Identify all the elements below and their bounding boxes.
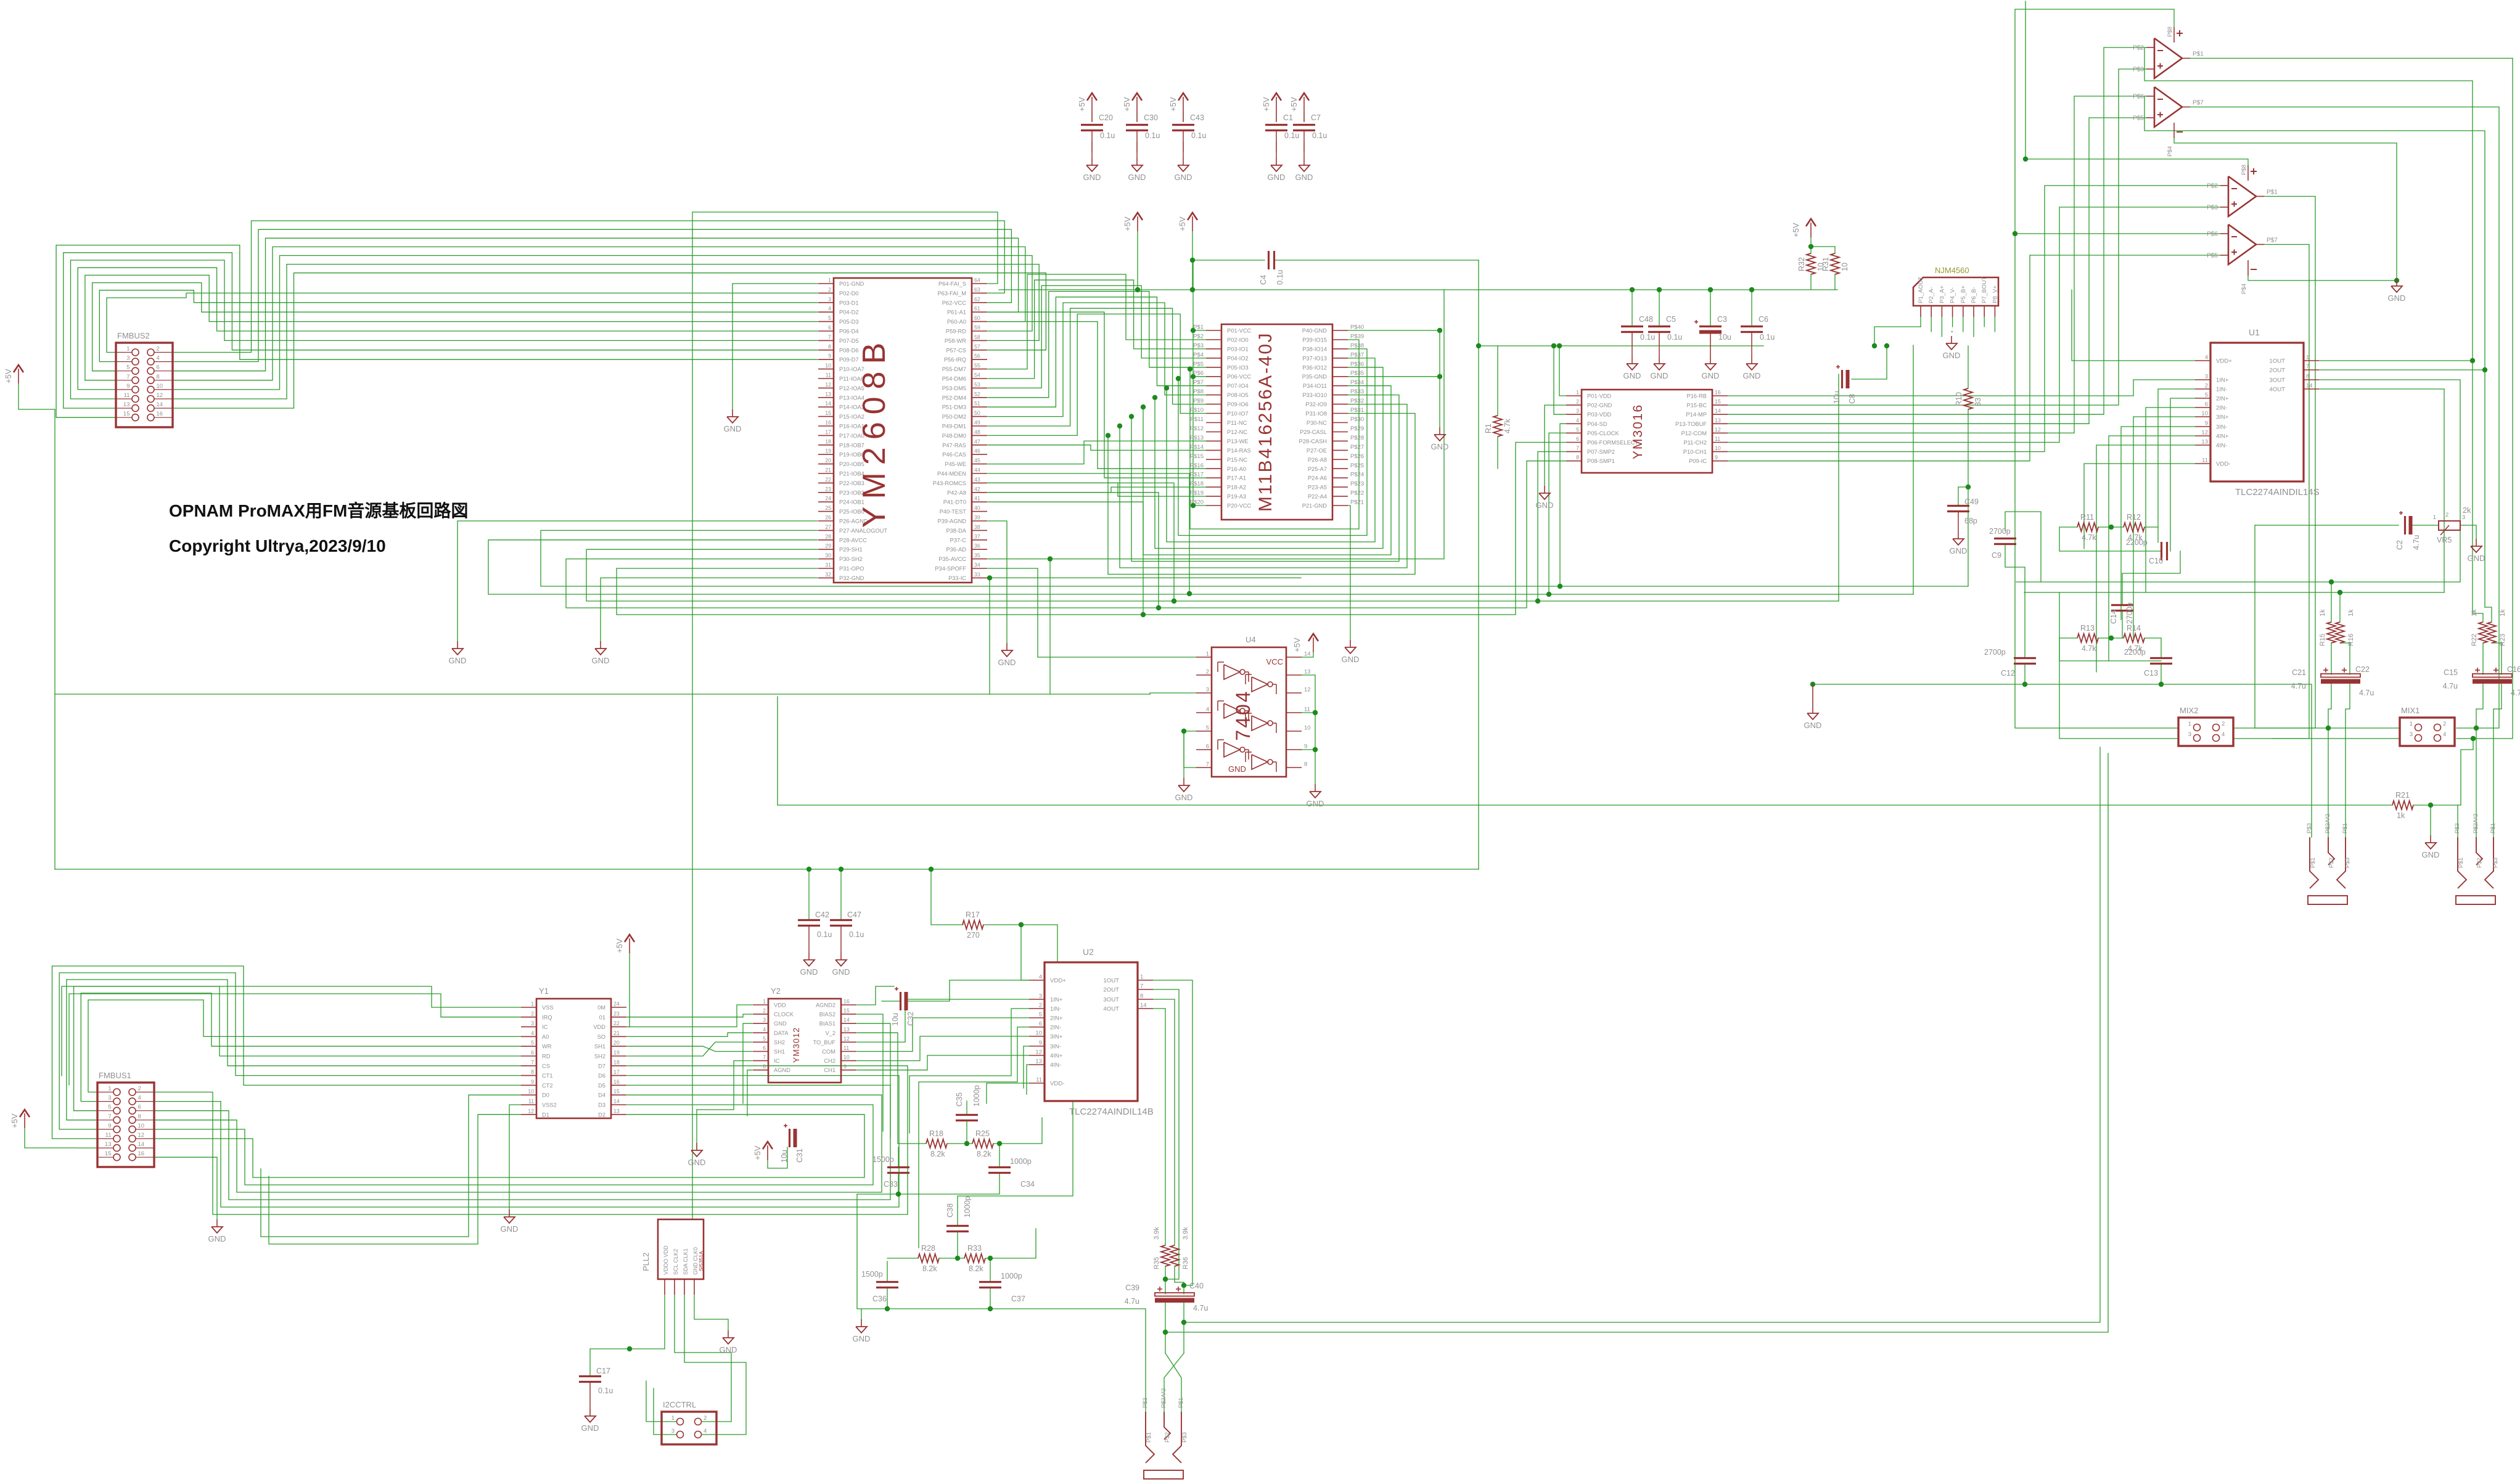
svg-text:2700p: 2700p xyxy=(1989,527,2011,536)
svg-text:P15-NC: P15-NC xyxy=(1227,457,1247,463)
svg-text:P13-WE: P13-WE xyxy=(1227,438,1249,444)
svg-text:P27-ANALOGOUT: P27-ANALOGOUT xyxy=(839,528,887,534)
svg-text:VCC: VCC xyxy=(1266,657,1283,666)
svg-text:P34-IO11: P34-IO11 xyxy=(1303,383,1327,389)
svg-text:R23: R23 xyxy=(2499,634,2506,646)
svg-text:Y1: Y1 xyxy=(539,986,549,996)
svg-text:P$1: P$1 xyxy=(2342,823,2349,833)
svg-text:GND: GND xyxy=(1743,371,1761,380)
svg-text:29: 29 xyxy=(825,543,831,549)
svg-text:3IN+: 3IN+ xyxy=(2216,414,2229,421)
svg-text:5: 5 xyxy=(108,1104,111,1111)
svg-text:P$3: P$3 xyxy=(1193,342,1204,349)
svg-text:44: 44 xyxy=(974,467,980,473)
svg-text:16: 16 xyxy=(843,999,850,1005)
svg-text:P$3: P$3 xyxy=(2454,823,2461,833)
svg-text:1: 1 xyxy=(2188,721,2191,727)
svg-text:+5V: +5V xyxy=(1077,97,1086,112)
svg-text:+5V: +5V xyxy=(1289,97,1299,112)
svg-text:P03-D1: P03-D1 xyxy=(839,300,859,306)
svg-text:2k: 2k xyxy=(2463,506,2471,515)
svg-text:GND: GND xyxy=(1268,173,1286,182)
svg-text:1: 1 xyxy=(2306,354,2309,361)
svg-text:C12: C12 xyxy=(2001,669,2015,678)
svg-text:C13: C13 xyxy=(2144,669,2158,678)
svg-text:47: 47 xyxy=(974,438,980,444)
svg-text:IRQ: IRQ xyxy=(542,1014,552,1020)
svg-text:GND: GND xyxy=(592,656,610,665)
svg-text:7404: 7404 xyxy=(1232,689,1254,740)
svg-text:+5V: +5V xyxy=(10,1113,19,1128)
svg-text:FMBUS2: FMBUS2 xyxy=(117,331,150,340)
svg-text:P43-ROMCS: P43-ROMCS xyxy=(933,480,966,486)
svg-text:P08-D6: P08-D6 xyxy=(839,347,859,353)
svg-text:4.7u: 4.7u xyxy=(2443,682,2458,690)
svg-text:GND: GND xyxy=(832,967,850,976)
svg-text:7: 7 xyxy=(2306,364,2309,370)
svg-text:SDA CLK1: SDA CLK1 xyxy=(683,1248,689,1275)
svg-text:1k: 1k xyxy=(2499,609,2506,616)
svg-text:P$5: P$5 xyxy=(1193,361,1204,367)
svg-text:P04-SD: P04-SD xyxy=(1587,421,1607,427)
svg-text:R21: R21 xyxy=(2395,791,2410,800)
svg-text:3IN+: 3IN+ xyxy=(1050,1034,1063,1041)
svg-text:R1: R1 xyxy=(1484,424,1493,433)
svg-text:18: 18 xyxy=(614,1059,620,1065)
svg-text:7: 7 xyxy=(763,1054,766,1060)
svg-text:12: 12 xyxy=(1304,687,1311,694)
svg-text:4: 4 xyxy=(1206,706,1209,713)
svg-text:9: 9 xyxy=(108,1123,111,1129)
svg-text:4OUT: 4OUT xyxy=(1103,1006,1119,1013)
svg-text:3: 3 xyxy=(828,296,831,302)
svg-text:1000p: 1000p xyxy=(1001,1272,1022,1280)
svg-text:R25: R25 xyxy=(975,1129,990,1138)
svg-text:15: 15 xyxy=(123,411,130,417)
svg-text:P38-DA: P38-DA xyxy=(946,528,966,534)
svg-text:R11: R11 xyxy=(2080,513,2094,522)
svg-text:3: 3 xyxy=(531,1020,534,1026)
svg-text:P02-IO0: P02-IO0 xyxy=(1227,337,1249,343)
svg-text:P$22: P$22 xyxy=(1350,490,1364,497)
svg-text:12: 12 xyxy=(843,1036,850,1042)
svg-text:2: 2 xyxy=(531,1010,534,1017)
svg-text:32: 32 xyxy=(825,571,831,578)
svg-text:P47-RAS: P47-RAS xyxy=(942,442,966,448)
svg-text:P33-IC: P33-IC xyxy=(948,575,966,581)
svg-text:11: 11 xyxy=(124,392,130,399)
svg-text:4.7u: 4.7u xyxy=(2511,689,2520,697)
svg-text:10: 10 xyxy=(843,1054,850,1060)
svg-text:33: 33 xyxy=(1974,398,1982,406)
svg-text:C42: C42 xyxy=(815,911,829,919)
svg-text:P$11: P$11 xyxy=(1191,416,1204,423)
svg-text:P$4: P$4 xyxy=(1193,351,1204,358)
svg-text:11: 11 xyxy=(2202,457,2208,464)
svg-text:15: 15 xyxy=(105,1150,112,1157)
svg-text:1: 1 xyxy=(1140,974,1143,981)
svg-text:P$1: P$1 xyxy=(1146,1432,1152,1443)
svg-text:P28-AVCC: P28-AVCC xyxy=(839,537,867,543)
svg-text:P46-CAS: P46-CAS xyxy=(942,452,966,458)
svg-text:0.1u: 0.1u xyxy=(1100,131,1115,140)
svg-text:5: 5 xyxy=(531,1040,534,1046)
svg-text:3: 3 xyxy=(1039,993,1042,1000)
svg-text:P27-OE: P27-OE xyxy=(1307,448,1327,454)
svg-text:7: 7 xyxy=(531,1059,534,1065)
svg-text:1OUT: 1OUT xyxy=(2269,358,2285,365)
svg-text:18: 18 xyxy=(825,438,831,444)
svg-text:GND: GND xyxy=(1342,655,1360,664)
svg-text:R13: R13 xyxy=(2080,624,2095,633)
svg-text:P$1: P$1 xyxy=(2310,858,2317,868)
svg-text:P53-DM5: P53-DM5 xyxy=(942,385,966,391)
svg-text:P57-CS: P57-CS xyxy=(946,347,966,353)
svg-text:CS: CS xyxy=(542,1063,550,1069)
svg-text:P28-CASH: P28-CASH xyxy=(1299,438,1327,444)
svg-text:11: 11 xyxy=(1036,1077,1042,1084)
svg-text:2OUT: 2OUT xyxy=(2269,367,2285,374)
svg-text:4.7k: 4.7k xyxy=(2082,533,2096,542)
svg-text:COM: COM xyxy=(822,1049,835,1055)
svg-text:P61-A1: P61-A1 xyxy=(947,309,966,316)
svg-text:13: 13 xyxy=(2201,439,2208,446)
svg-text:P$7: P$7 xyxy=(2267,237,2278,244)
svg-text:P$12: P$12 xyxy=(1190,425,1204,432)
svg-text:C2: C2 xyxy=(2395,540,2404,550)
svg-text:4.7k: 4.7k xyxy=(2082,644,2096,653)
svg-text:4: 4 xyxy=(138,1095,141,1102)
svg-text:3.9k: 3.9k xyxy=(1182,1227,1189,1240)
svg-text:D4: D4 xyxy=(598,1092,605,1099)
svg-text:GND: GND xyxy=(501,1224,519,1234)
svg-text:P$24: P$24 xyxy=(1350,472,1364,478)
svg-text:9: 9 xyxy=(1039,1040,1042,1047)
svg-text:P30-NC: P30-NC xyxy=(1307,420,1327,426)
svg-text:GND: GND xyxy=(1307,799,1324,808)
svg-text:GND: GND xyxy=(724,424,742,433)
svg-text:VR5: VR5 xyxy=(2437,536,2452,544)
svg-text:A0: A0 xyxy=(542,1034,549,1040)
svg-text:1IN-: 1IN- xyxy=(1050,1006,1061,1013)
svg-text:GND: GND xyxy=(1175,173,1192,182)
svg-text:C47: C47 xyxy=(847,911,861,919)
svg-text:+5V: +5V xyxy=(1292,637,1302,652)
svg-text:P05-D3: P05-D3 xyxy=(839,319,859,325)
svg-text:10u: 10u xyxy=(780,1150,789,1163)
svg-text:C10: C10 xyxy=(2149,557,2163,565)
svg-text:2IN+: 2IN+ xyxy=(1050,1015,1063,1022)
svg-text:0.1u: 0.1u xyxy=(1640,333,1655,342)
svg-text:P$7: P$7 xyxy=(2193,100,2204,107)
svg-text:R33: R33 xyxy=(967,1244,982,1253)
svg-text:6: 6 xyxy=(1039,1021,1042,1028)
svg-text:P36-AD: P36-AD xyxy=(946,547,966,553)
svg-text:P25-A7: P25-A7 xyxy=(1308,466,1327,472)
svg-text:16: 16 xyxy=(614,1079,620,1085)
svg-text:C40: C40 xyxy=(1189,1282,1204,1290)
svg-text:7: 7 xyxy=(126,374,129,380)
svg-text:P63-FAI_M: P63-FAI_M xyxy=(937,290,966,297)
svg-text:P4_V-: P4_V- xyxy=(1950,287,1956,303)
svg-text:GND: GND xyxy=(1083,173,1101,182)
svg-text:13: 13 xyxy=(843,1026,850,1033)
svg-text:1000p: 1000p xyxy=(1010,1157,1032,1166)
svg-text:2: 2 xyxy=(763,1008,766,1014)
svg-text:14: 14 xyxy=(138,1141,145,1148)
svg-text:P52-DM4: P52-DM4 xyxy=(942,395,966,401)
svg-text:13: 13 xyxy=(105,1141,112,1148)
svg-text:62: 62 xyxy=(974,296,980,302)
svg-text:4: 4 xyxy=(1039,974,1042,981)
svg-text:P15-BC: P15-BC xyxy=(1686,403,1707,409)
svg-text:2200p: 2200p xyxy=(2126,538,2148,547)
svg-text:P12-COM: P12-COM xyxy=(1681,430,1707,436)
svg-text:C36: C36 xyxy=(872,1295,887,1303)
svg-text:P7_BOUT: P7_BOUT xyxy=(1981,277,1988,303)
svg-text:C8: C8 xyxy=(1848,394,1857,404)
svg-text:P01-VCC: P01-VCC xyxy=(1227,328,1252,334)
svg-text:40: 40 xyxy=(974,505,980,511)
svg-text:GND: GND xyxy=(998,658,1016,667)
svg-text:GND: GND xyxy=(1128,173,1146,182)
svg-text:P62-VCC: P62-VCC xyxy=(942,300,967,306)
svg-text:24: 24 xyxy=(614,1001,620,1007)
svg-text:P$36: P$36 xyxy=(1350,361,1364,367)
svg-text:3: 3 xyxy=(763,1017,766,1023)
svg-text:0.1u: 0.1u xyxy=(1312,131,1327,140)
svg-text:2700p: 2700p xyxy=(2125,602,2134,624)
svg-text:1: 1 xyxy=(1206,651,1209,658)
svg-text:P$29: P$29 xyxy=(1350,425,1364,432)
svg-text:10: 10 xyxy=(528,1089,534,1095)
svg-text:12: 12 xyxy=(528,1108,534,1114)
svg-text:1: 1 xyxy=(108,1086,111,1092)
svg-text:D7: D7 xyxy=(598,1063,605,1069)
svg-text:VDD-: VDD- xyxy=(1050,1081,1064,1087)
svg-text:I2CCTRL: I2CCTRL xyxy=(663,1400,696,1409)
svg-text:P33-IO10: P33-IO10 xyxy=(1302,392,1327,398)
svg-text:33: 33 xyxy=(974,571,980,578)
svg-text:P$19: P$19 xyxy=(1190,490,1204,497)
svg-text:TO_BUF: TO_BUF xyxy=(813,1039,835,1046)
svg-text:D0: D0 xyxy=(542,1092,549,1099)
svg-text:RD: RD xyxy=(542,1054,551,1060)
svg-text:P06-VCC: P06-VCC xyxy=(1227,374,1252,380)
svg-text:2700p: 2700p xyxy=(1984,648,2006,657)
svg-text:R35: R35 xyxy=(1153,1257,1160,1269)
svg-text:10u: 10u xyxy=(891,1013,900,1026)
svg-text:15: 15 xyxy=(614,1089,620,1095)
svg-text:38: 38 xyxy=(974,524,980,530)
svg-text:0.1u: 0.1u xyxy=(849,930,864,939)
svg-text:R36: R36 xyxy=(1182,1257,1189,1269)
svg-text:13: 13 xyxy=(614,1108,620,1114)
svg-text:P55-DM7: P55-DM7 xyxy=(942,366,966,372)
svg-text:1: 1 xyxy=(828,277,831,284)
svg-text:P$32: P$32 xyxy=(1350,398,1364,404)
svg-text:1: 1 xyxy=(126,346,129,353)
svg-text:CLOCK: CLOCK xyxy=(774,1012,794,1018)
svg-text:16: 16 xyxy=(825,420,831,426)
svg-text:C35: C35 xyxy=(955,1092,964,1107)
svg-text:GND: GND xyxy=(1943,351,1961,360)
svg-text:7: 7 xyxy=(1140,983,1143,990)
svg-text:10u: 10u xyxy=(1833,391,1841,404)
svg-text:P$6: P$6 xyxy=(2207,231,2218,238)
svg-text:P18-A2: P18-A2 xyxy=(1227,485,1246,491)
svg-text:27: 27 xyxy=(825,524,831,530)
svg-text:CH2: CH2 xyxy=(824,1058,835,1064)
svg-text:R32: R32 xyxy=(1797,257,1806,271)
svg-text:21: 21 xyxy=(614,1030,620,1036)
svg-text:D5: D5 xyxy=(598,1083,605,1089)
svg-text:8: 8 xyxy=(157,374,160,380)
svg-text:2: 2 xyxy=(2443,721,2446,727)
svg-text:9: 9 xyxy=(2205,420,2208,427)
svg-text:CT1: CT1 xyxy=(542,1073,553,1079)
svg-text:23: 23 xyxy=(614,1010,620,1017)
svg-text:P$4: P$4 xyxy=(2241,284,2247,294)
svg-text:4.7u: 4.7u xyxy=(1125,1297,1139,1306)
svg-text:0.1u: 0.1u xyxy=(1760,333,1775,342)
svg-text:GND: GND xyxy=(853,1334,871,1343)
svg-text:12: 12 xyxy=(825,382,831,388)
svg-text:P$1: P$1 xyxy=(2490,823,2497,833)
svg-text:25: 25 xyxy=(825,505,831,511)
svg-text:WR: WR xyxy=(542,1044,552,1050)
svg-text:24: 24 xyxy=(825,496,831,502)
svg-text:P$3: P$3 xyxy=(1181,1432,1188,1443)
svg-text:P$28: P$28 xyxy=(1350,435,1364,441)
svg-text:GND: GND xyxy=(800,967,818,976)
svg-text:2: 2 xyxy=(1039,1002,1042,1009)
svg-text:P64-FAI_S: P64-FAI_S xyxy=(938,281,966,287)
svg-text:P$16: P$16 xyxy=(1190,462,1204,469)
svg-text:0.1u: 0.1u xyxy=(1284,131,1299,140)
svg-text:26: 26 xyxy=(825,515,831,521)
svg-text:C38: C38 xyxy=(946,1203,954,1218)
svg-text:D6: D6 xyxy=(598,1073,605,1079)
svg-text:FMBUS1: FMBUS1 xyxy=(99,1071,131,1080)
svg-text:12: 12 xyxy=(2201,430,2208,436)
svg-text:13: 13 xyxy=(1304,669,1311,676)
svg-text:SI5351A: SI5351A xyxy=(698,1251,704,1271)
svg-text:P44-MDEN: P44-MDEN xyxy=(937,471,966,477)
svg-text:41: 41 xyxy=(974,496,980,502)
svg-text:P1_AOUT: P1_AOUT xyxy=(1918,277,1924,303)
svg-text:P39-AGND: P39-AGND xyxy=(938,518,967,525)
svg-text:P$38: P$38 xyxy=(1350,342,1364,349)
svg-text:MIX1: MIX1 xyxy=(2401,706,2419,715)
svg-text:1: 1 xyxy=(2433,514,2436,521)
svg-text:0.1u: 0.1u xyxy=(1667,333,1682,342)
svg-text:8: 8 xyxy=(828,343,831,350)
svg-text:P$2A*2: P$2A*2 xyxy=(2325,814,2331,833)
svg-text:C1: C1 xyxy=(1283,113,1293,122)
svg-text:8: 8 xyxy=(138,1113,141,1120)
svg-text:11: 11 xyxy=(843,1045,849,1051)
svg-text:P01-GND: P01-GND xyxy=(839,281,864,287)
svg-text:10: 10 xyxy=(1035,1030,1042,1037)
svg-text:+5V: +5V xyxy=(1791,223,1800,237)
svg-text:14: 14 xyxy=(614,1099,620,1105)
svg-text:11: 11 xyxy=(826,372,831,379)
svg-text:P$14: P$14 xyxy=(1190,444,1204,451)
svg-text:13: 13 xyxy=(1035,1058,1042,1065)
svg-text:CT2: CT2 xyxy=(542,1083,553,1089)
svg-text:D3: D3 xyxy=(598,1102,605,1108)
svg-text:U4: U4 xyxy=(1246,635,1256,644)
svg-text:P32-IO9: P32-IO9 xyxy=(1305,401,1327,407)
svg-text:P8_V+: P8_V+ xyxy=(1992,285,1998,303)
svg-text:0.1u: 0.1u xyxy=(1191,131,1206,140)
svg-text:7: 7 xyxy=(1576,445,1579,451)
svg-text:13: 13 xyxy=(1715,417,1721,424)
svg-text:P$2A*2: P$2A*2 xyxy=(1160,1388,1167,1408)
svg-text:P$27: P$27 xyxy=(1350,444,1364,451)
svg-text:14: 14 xyxy=(2306,383,2313,390)
svg-text:P$31: P$31 xyxy=(1350,407,1364,414)
svg-text:58: 58 xyxy=(974,334,980,340)
svg-text:P10-IO7: P10-IO7 xyxy=(1227,411,1249,417)
svg-text:P23-A5: P23-A5 xyxy=(1308,485,1327,491)
svg-text:14: 14 xyxy=(843,1017,850,1023)
svg-text:P$26: P$26 xyxy=(1350,453,1364,460)
svg-text:P16-A0: P16-A0 xyxy=(1227,466,1246,472)
svg-text:2: 2 xyxy=(2222,721,2225,727)
svg-text:2OUT: 2OUT xyxy=(1103,987,1119,994)
svg-text:17: 17 xyxy=(825,429,831,435)
svg-text:+5V: +5V xyxy=(1178,216,1187,231)
svg-text:P$8: P$8 xyxy=(1193,388,1204,395)
svg-text:8: 8 xyxy=(531,1069,534,1075)
svg-text:DATA: DATA xyxy=(774,1030,789,1036)
svg-text:4IN+: 4IN+ xyxy=(1050,1053,1063,1060)
svg-text:C22: C22 xyxy=(2355,665,2370,674)
svg-text:5: 5 xyxy=(2205,392,2208,399)
svg-text:YM3012: YM3012 xyxy=(791,1027,801,1063)
svg-text:15: 15 xyxy=(843,1008,850,1014)
svg-text:12: 12 xyxy=(1715,427,1721,433)
svg-text:P03-IO1: P03-IO1 xyxy=(1227,346,1249,352)
svg-text:7: 7 xyxy=(108,1113,111,1120)
svg-text:C17: C17 xyxy=(596,1367,610,1375)
svg-text:P$30: P$30 xyxy=(1350,416,1364,423)
svg-text:YM3016: YM3016 xyxy=(1631,404,1645,459)
svg-text:6: 6 xyxy=(1576,436,1579,442)
svg-text:R17: R17 xyxy=(966,911,980,919)
svg-text:1k: 1k xyxy=(2397,811,2405,820)
svg-text:4.7u: 4.7u xyxy=(2412,535,2421,550)
svg-text:14: 14 xyxy=(1304,651,1311,658)
svg-text:V_2: V_2 xyxy=(825,1030,835,1036)
svg-text:4: 4 xyxy=(2205,354,2208,361)
svg-text:GND: GND xyxy=(720,1345,737,1354)
svg-text:P02-D0: P02-D0 xyxy=(839,290,859,297)
svg-text:VDD: VDD xyxy=(774,1002,786,1009)
svg-text:R14: R14 xyxy=(2127,624,2141,633)
svg-text:P$6: P$6 xyxy=(1193,370,1204,377)
svg-text:1500p: 1500p xyxy=(861,1270,883,1279)
svg-text:2IN+: 2IN+ xyxy=(2216,396,2229,403)
svg-text:GND: GND xyxy=(2422,850,2440,859)
svg-text:3IN-: 3IN- xyxy=(2216,424,2227,431)
svg-text:P50-DM2: P50-DM2 xyxy=(942,414,966,420)
svg-text:C15: C15 xyxy=(2444,668,2458,677)
svg-text:GND: GND xyxy=(1431,442,1449,451)
svg-text:2: 2 xyxy=(1576,399,1579,405)
